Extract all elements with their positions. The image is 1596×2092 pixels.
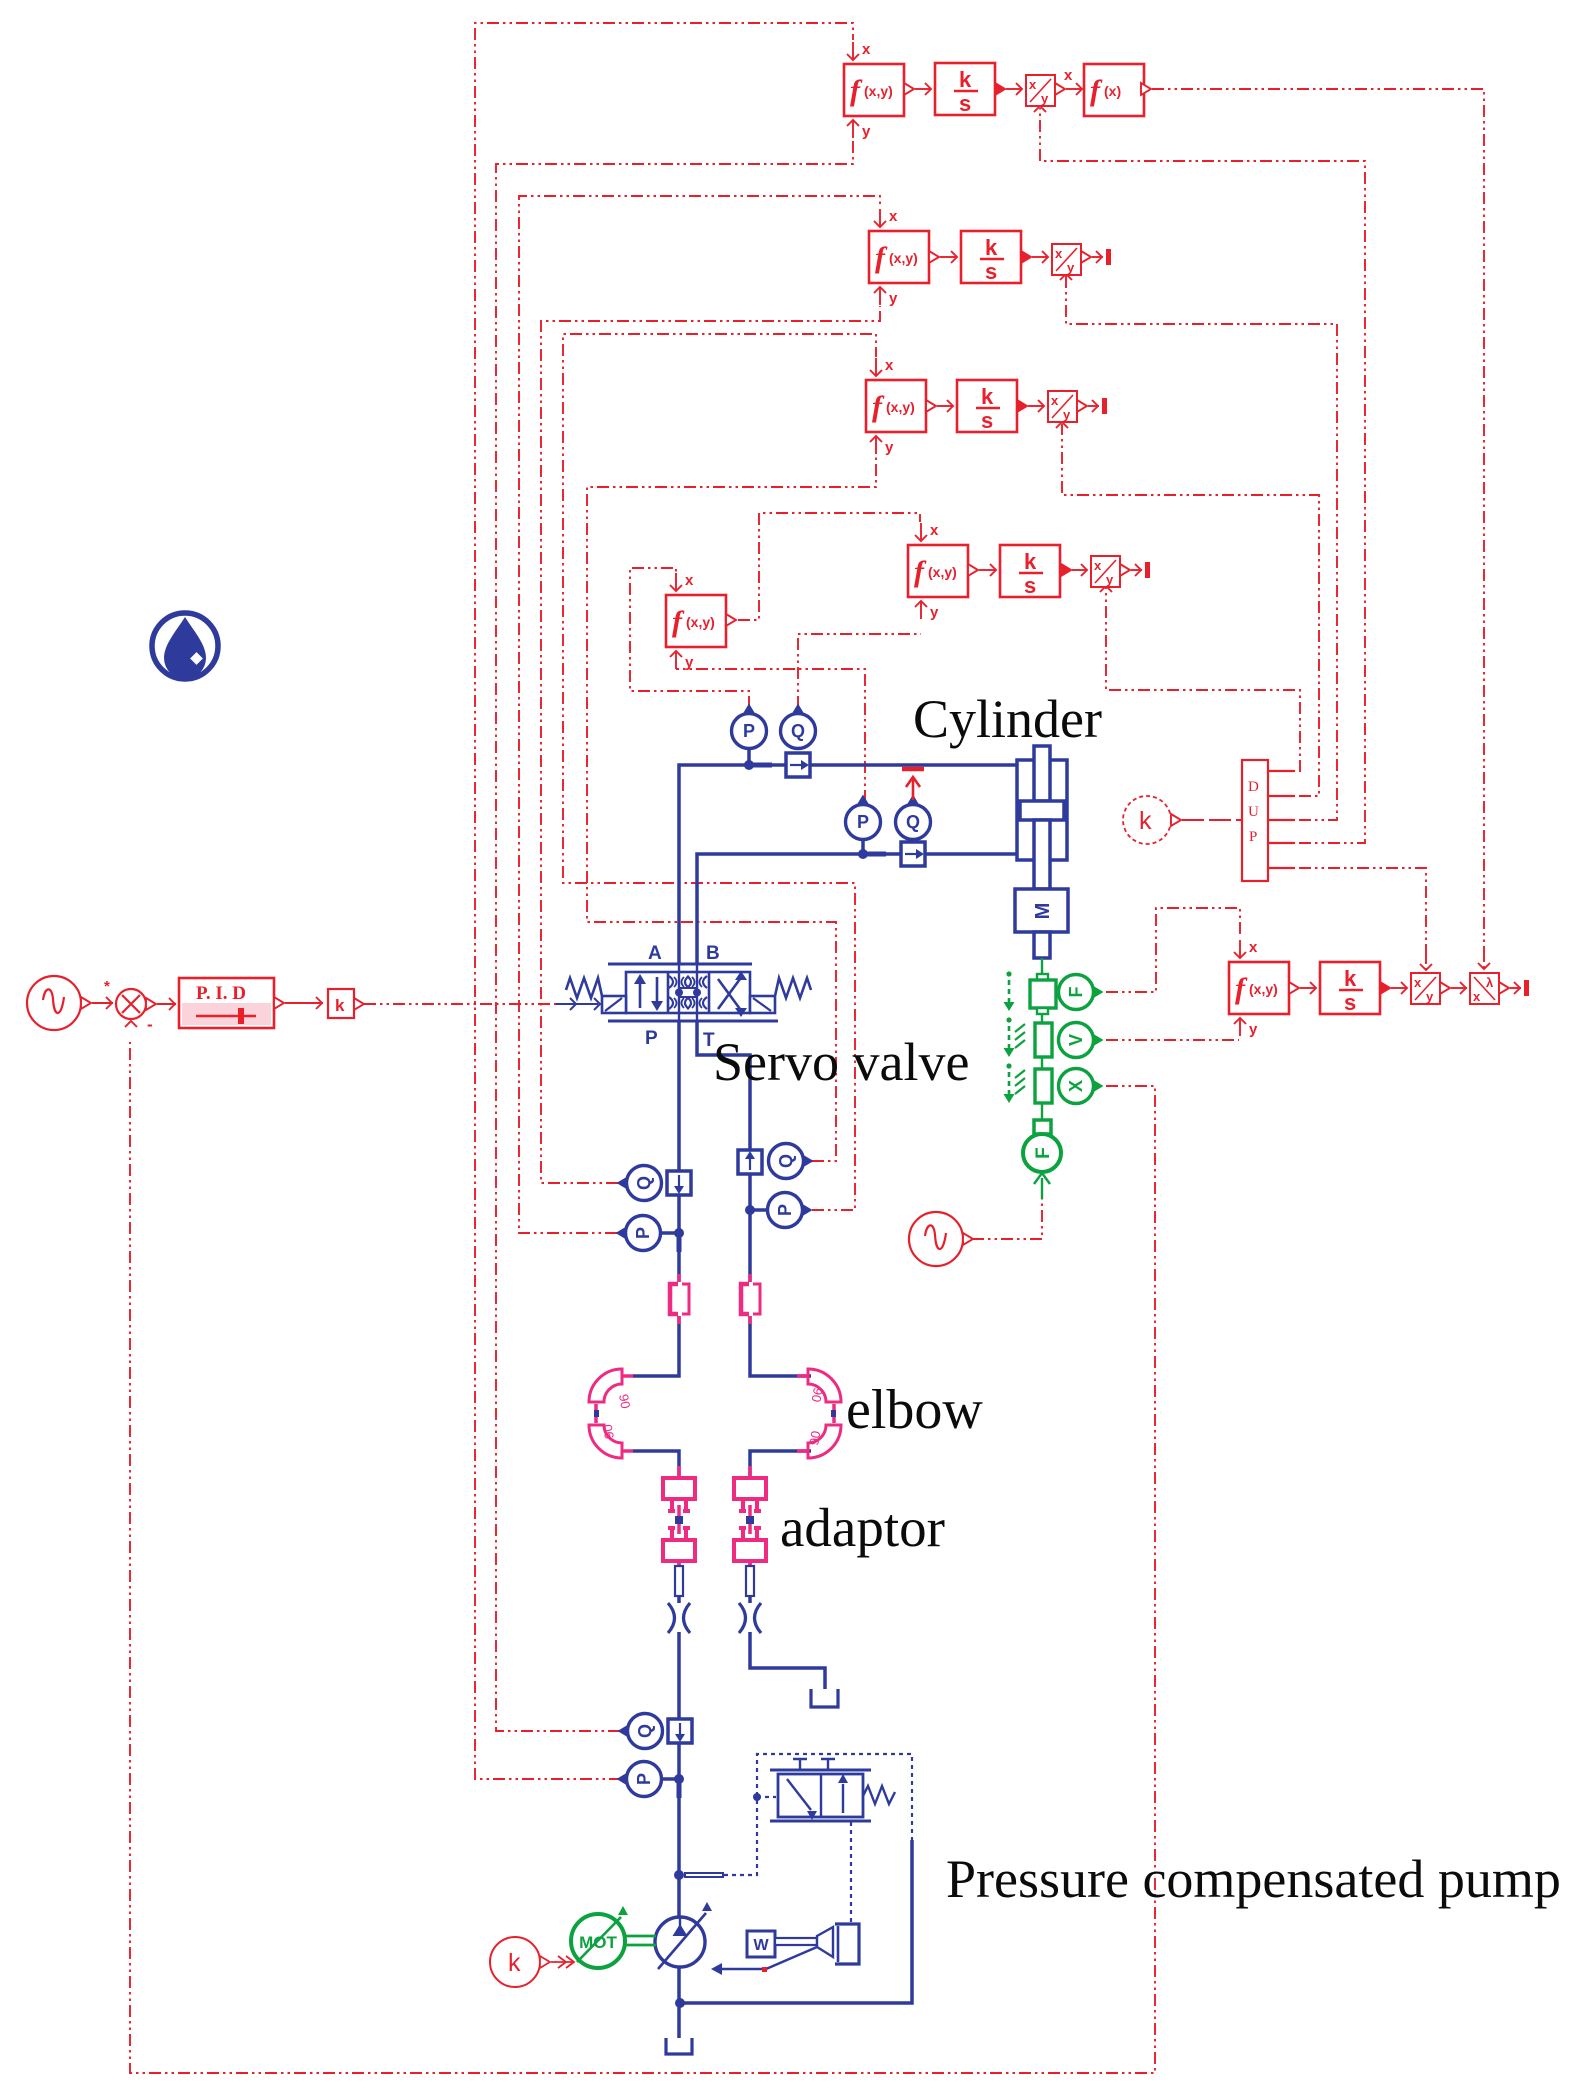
DUP duplicator block	[1242, 760, 1268, 881]
sensor P cylinder rod pressure	[861, 840, 865, 854]
junction rod line	[858, 849, 868, 859]
divider x/y chain1	[1026, 75, 1055, 106]
function block f(x,y) chain2	[869, 231, 929, 283]
integrator k/s chain4	[1000, 545, 1060, 597]
svg-text:y: y	[889, 290, 898, 307]
svg-text:Servo valve: Servo valve	[713, 1032, 969, 1092]
wire chain5 f to k/s	[1289, 982, 1299, 994]
svg-text:k: k	[985, 235, 998, 260]
wire chain3 divider to terminator	[1077, 400, 1087, 412]
svg-text:F: F	[1066, 987, 1086, 998]
pipe segment B-line	[746, 1566, 754, 1596]
pilot stub	[684, 1872, 724, 1878]
svg-text:(x,y): (x,y)	[864, 83, 893, 99]
svg-text:V: V	[1066, 1034, 1086, 1046]
compensator spring	[863, 1786, 895, 1804]
svg-text:Q: Q	[776, 1154, 796, 1168]
svg-text:B: B	[706, 943, 720, 964]
svg-text:90: 90	[809, 1386, 826, 1403]
svg-text:x: x	[1249, 939, 1258, 956]
svg-text:P: P	[645, 1028, 658, 1049]
divider x/y chain2	[1052, 244, 1081, 275]
divider x/y chain3	[1048, 391, 1077, 422]
constant k source (motor speed)	[490, 1937, 540, 1987]
sensor P pump pressure	[627, 1762, 662, 1797]
wire F-sensor to chain5 x-input	[1106, 908, 1240, 992]
svg-text:x: x	[1029, 77, 1037, 92]
sensor F circle	[1059, 975, 1094, 1010]
pressure compensator valve	[770, 1770, 871, 1821]
svg-text:Q: Q	[906, 812, 920, 832]
wire k constant to DUP	[1182, 819, 1242, 821]
function block f(x,y) chain3	[866, 380, 926, 432]
svg-text:x: x	[930, 522, 939, 539]
svg-text:MOT: MOT	[579, 1933, 617, 1952]
wire hydraulic supply line P (upper)	[633, 1021, 679, 1376]
svg-text:x: x	[1064, 67, 1073, 84]
svg-text:*: *	[104, 978, 110, 995]
wire chain3 f to k/s	[926, 400, 936, 412]
wire chain1 divider to f(x)	[1055, 83, 1065, 95]
sensor Q pump flow	[628, 1714, 663, 1749]
svg-text:Q: Q	[635, 1724, 655, 1738]
compensator pilot T taps	[793, 1759, 807, 1770]
svg-text:A: A	[648, 943, 662, 964]
svg-text:y: y	[862, 123, 871, 140]
wire chain4 divider to terminator	[1120, 564, 1130, 576]
svg-text:P: P	[634, 1773, 654, 1785]
svg-text:(x,y): (x,y)	[686, 614, 715, 630]
svg-text:90: 90	[600, 1423, 617, 1440]
wire chain4 k/s to divider	[1061, 564, 1071, 576]
wire chain5 power to terminator	[1499, 982, 1509, 994]
svg-text:x: x	[1055, 246, 1063, 261]
svg-text:P: P	[775, 1204, 795, 1216]
function block f(x,y) standalone (chain4 pre-stage)	[666, 595, 726, 647]
wire chain1 k/s to divider	[995, 83, 1005, 95]
svg-text:y: y	[885, 439, 894, 456]
wire DUP out5 to chain5 divider input	[1270, 868, 1426, 952]
function block f(x,y) chain1	[844, 64, 904, 116]
wire chain1 f(x) output to power-block input	[1152, 89, 1484, 950]
svg-text:90: 90	[616, 1393, 633, 1410]
svg-text:k: k	[981, 384, 994, 409]
svg-text:P: P	[1249, 829, 1257, 845]
wire V-sensor to chain5 y-input	[1106, 1039, 1239, 1041]
wire chain1 f to k/s	[904, 83, 914, 95]
wire chain3 k/s to divider	[1017, 400, 1027, 412]
force source F circle	[1023, 1134, 1061, 1172]
sensor P valve-B pressure	[768, 1193, 803, 1228]
integrator k/s chain3	[957, 380, 1017, 432]
integrator k/s chain1	[935, 63, 995, 115]
summing junction	[116, 989, 146, 1019]
wire V to X transducer	[1041, 1057, 1043, 1069]
svg-text:x: x	[1473, 989, 1481, 1004]
wire chain2 k/s to divider	[1021, 251, 1031, 263]
pipe segment B-line (pink)	[748, 1274, 752, 1282]
svg-text:F: F	[1033, 1147, 1054, 1159]
wire pilot dotted lines	[724, 1754, 912, 1875]
function block f(x,y) chain5	[1229, 962, 1289, 1014]
cylinder piston	[1020, 801, 1064, 820]
svg-text:x: x	[685, 572, 694, 589]
terminator chain5	[1524, 980, 1529, 996]
wire gain-k to servo valve	[364, 1003, 556, 1005]
wire Q-cyl-cap flow sensor to chain4 y-input	[798, 634, 921, 708]
svg-text:Q: Q	[791, 721, 805, 741]
svg-text:x: x	[889, 208, 898, 225]
svg-text:x: x	[862, 41, 871, 58]
pipe segment A-line (pink)	[677, 1274, 681, 1282]
sensor Q valve-A flow	[627, 1166, 662, 1201]
svg-text:s: s	[981, 408, 993, 433]
wire chain2 f to k/s	[929, 251, 939, 263]
electric motor MOT	[571, 1914, 625, 1968]
sensor Q valve-B flow	[738, 1150, 762, 1174]
force sensor F transducer	[1037, 974, 1048, 980]
wire force input arrow	[1041, 1178, 1043, 1199]
junction pilot tap	[674, 1870, 684, 1880]
wire PID to gain k	[274, 997, 284, 1009]
wire DUP out2 to chain3 divider input	[1062, 424, 1319, 796]
wire P3-pump-pressure to chain1 x-input	[475, 23, 853, 1779]
mass port block	[1034, 932, 1050, 958]
svg-text:Cylinder: Cylinder	[913, 689, 1102, 749]
wire hydraulic line valve-B to cylinder rod	[697, 854, 1017, 964]
position sensor X transducer	[1035, 1069, 1052, 1103]
svg-text:k: k	[508, 1949, 521, 1977]
svg-text:k: k	[1139, 807, 1152, 835]
fluid properties drop icon	[152, 613, 218, 679]
svg-text:(x,y): (x,y)	[1249, 981, 1278, 997]
wire DUP out4 to chain1 divider input	[1040, 108, 1365, 843]
svg-text:P: P	[743, 721, 755, 741]
pump displacement feedback arrow	[722, 1947, 817, 1969]
gain k block	[328, 989, 354, 1018]
wire P-cyl-cap sensor to f5 x-input	[630, 568, 749, 708]
adaptor fitting A-line	[677, 1466, 681, 1574]
displacement actuator W	[747, 1931, 775, 1957]
svg-text:y: y	[1106, 572, 1114, 587]
svg-text:P: P	[633, 1227, 653, 1239]
wire chain4 f to k/s	[968, 564, 978, 576]
tank B-line	[811, 1689, 838, 1707]
terminator chain4	[1145, 562, 1150, 578]
wire P-valveB-pressure to chain3 x-input	[563, 334, 876, 1210]
sensor P cylinder cap pressure	[747, 749, 751, 765]
wire Q-valveB-flow to chain3 y-input	[587, 455, 876, 1161]
wire pump outlet to compensator pilot	[680, 1840, 912, 2003]
svg-text:y: y	[1063, 407, 1071, 422]
wire hydraulic line valve-A to cylinder cap	[679, 765, 1017, 964]
wire chain5 k/s to divider	[1380, 982, 1390, 994]
svg-text:λ: λ	[1486, 975, 1494, 990]
wire sine2 to F source	[972, 1199, 1042, 1239]
svg-text:W: W	[753, 1937, 769, 1954]
wire chain1 output port	[1141, 83, 1151, 95]
svg-text:(x,y): (x,y)	[928, 564, 957, 580]
wire P1-valveA-pressure to chain2 x-input	[519, 196, 880, 1233]
source sine-wave external force	[909, 1212, 963, 1266]
svg-text:k: k	[1024, 549, 1037, 574]
wire k to motor	[551, 1961, 574, 1963]
wire P2-cyl-rod sensor to f5 y-input	[676, 669, 865, 802]
function block f(x) chain1	[1084, 64, 1144, 116]
svg-text:U: U	[1248, 804, 1259, 820]
divider x/y chain5	[1411, 973, 1440, 1004]
servo valve 4/3 directional	[566, 943, 811, 1051]
integrator k/s chain2	[961, 231, 1021, 283]
divider x/y chain4	[1091, 556, 1120, 587]
svg-text:elbow: elbow	[846, 1379, 983, 1441]
wire chain2 divider to terminator	[1081, 251, 1091, 263]
wire Q1-valveA-flow to chain2 y-input	[541, 306, 880, 1183]
source sine-wave input signal	[27, 976, 81, 1030]
elbow fitting A-line	[589, 1369, 622, 1402]
cylinder piston rod lower	[1034, 820, 1050, 889]
svg-text:x: x	[1051, 393, 1059, 408]
wire f5 output triangle	[726, 614, 736, 626]
sensor P valve-A pressure	[626, 1216, 661, 1251]
cylinder piston rod upper	[1034, 746, 1050, 801]
cylinder barrel	[1017, 760, 1067, 860]
velocity sensor V transducer	[1035, 1023, 1052, 1057]
svg-text:y: y	[1041, 91, 1049, 106]
svg-text:x: x	[1094, 558, 1102, 573]
wire motor to pump shaft	[626, 1936, 656, 1945]
svg-text:Pressure compensated pump: Pressure compensated pump	[946, 1849, 1561, 1909]
wire hydraulic return line T (lower)	[750, 1451, 825, 1689]
svg-text:x: x	[1414, 975, 1422, 990]
svg-text:y: y	[1426, 989, 1434, 1004]
svg-text:90: 90	[806, 1430, 823, 1447]
svg-text:Q: Q	[634, 1176, 654, 1190]
sensor Q cylinder cap flow	[781, 714, 816, 749]
function block f(x,y) chain4	[908, 545, 968, 597]
green end block	[1034, 1120, 1051, 1134]
wire summer to PID	[146, 998, 156, 1010]
svg-text:P. I. D: P. I. D	[196, 983, 246, 1004]
svg-text:adaptor: adaptor	[780, 1497, 945, 1558]
wire valve command input	[556, 1003, 598, 1005]
tank pump suction	[666, 2038, 692, 2054]
svg-text:s: s	[985, 259, 997, 284]
junction cap line	[744, 760, 754, 770]
variable displacement pump	[655, 1917, 705, 1967]
svg-text:y: y	[685, 654, 694, 671]
pipe segment A-line	[675, 1566, 683, 1596]
junction pump outlet	[675, 1998, 685, 2008]
motion arrows beside sensors	[1006, 971, 1011, 976]
svg-text:X: X	[1066, 1080, 1086, 1092]
wire Q3-pump-flow to chain1 y-input	[496, 140, 853, 1731]
svg-text:s: s	[959, 91, 971, 116]
svg-text:M: M	[1032, 903, 1054, 920]
wire chain5 divider to power block	[1440, 982, 1450, 994]
wire F to V transducer	[1041, 1014, 1043, 1023]
constant k source (displacement)	[1123, 796, 1171, 844]
wire hydraulic return line T (upper)	[697, 1021, 811, 1376]
adaptor fitting B-line	[748, 1466, 752, 1574]
mass block M	[1015, 889, 1068, 932]
svg-text:y: y	[1067, 260, 1075, 275]
orifice B-line	[739, 1603, 761, 1633]
sensor V circle	[1059, 1023, 1094, 1058]
svg-text:s: s	[1344, 990, 1356, 1015]
signal plug above Q rod sensor	[912, 778, 915, 800]
wire sine1 to summer	[81, 997, 91, 1009]
elbow fitting B-line	[808, 1369, 841, 1402]
wire f5 output to chain4 x-input	[738, 513, 920, 620]
wire mass to force sensor	[1041, 958, 1043, 974]
orifice A-line	[668, 1603, 690, 1633]
svg-text:(x,y): (x,y)	[889, 250, 918, 266]
power function x^lambda chain5	[1470, 973, 1499, 1004]
wire X-sensor feedback to summer	[130, 1042, 1155, 2073]
svg-text:D: D	[1248, 779, 1259, 795]
svg-text:y: y	[1249, 1021, 1258, 1038]
wire DUP out3 to chain2 divider input	[1066, 276, 1337, 820]
svg-text:(x,y): (x,y)	[886, 399, 915, 415]
svg-text:s: s	[1024, 573, 1036, 598]
sensor X circle	[1059, 1069, 1094, 1104]
svg-text:k: k	[959, 67, 972, 92]
svg-text:k: k	[335, 996, 345, 1015]
integrator k/s chain5	[1320, 962, 1380, 1014]
sensor Q cylinder rod flow	[896, 805, 931, 840]
terminator chain3	[1102, 398, 1107, 414]
wire hydraulic supply line P (lower)	[633, 1451, 679, 2038]
svg-text:(x): (x)	[1104, 83, 1121, 99]
terminator chain2	[1106, 249, 1111, 265]
controller P.I.D block	[179, 978, 274, 1028]
svg-text:-: -	[147, 1015, 153, 1034]
svg-text:y: y	[930, 604, 939, 621]
svg-text:k: k	[1344, 966, 1357, 991]
wire X to end block	[1041, 1103, 1043, 1120]
svg-text:P: P	[857, 812, 869, 832]
wire DUP out1 to chain4 divider input	[1106, 588, 1300, 771]
svg-text:x: x	[885, 357, 894, 374]
node DUP output stubs	[1268, 770, 1294, 772]
